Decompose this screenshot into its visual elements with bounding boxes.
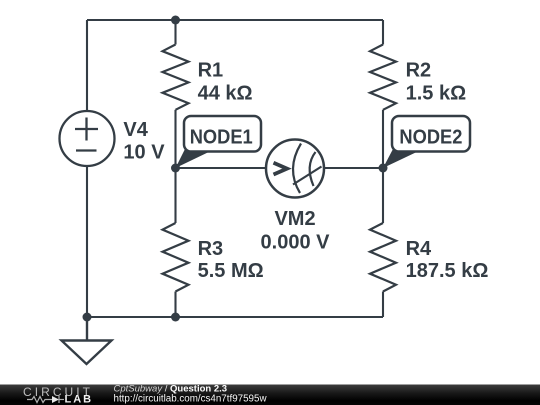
svg-text:R4: R4 (406, 238, 432, 260)
junction dot NODE1 (171, 164, 180, 173)
svg-text:http://circuitlab.com/cs4n7tf9: http://circuitlab.com/cs4n7tf97595w (114, 394, 268, 405)
svg-text:187.5 kΩ: 187.5 kΩ (406, 260, 489, 282)
wire R3 bottom lead (174, 292, 176, 318)
svg-text:LAB: LAB (65, 394, 94, 405)
footer logo squiggle and diode (27, 396, 64, 403)
junction dot NODE2 (379, 164, 388, 173)
wire R2 top lead (382, 20, 384, 45)
svg-text:R2: R2 (406, 60, 432, 82)
voltage source V4 (60, 111, 115, 166)
resistor R4 (370, 223, 396, 292)
wire VM2 right lead (324, 167, 383, 169)
node NODE1 label callout (176, 116, 262, 168)
junction dot top (R1/top wire) (171, 16, 180, 25)
wire R3 top lead (174, 168, 176, 223)
svg-text:NODE2: NODE2 (399, 126, 462, 148)
wire R2 bottom lead (382, 110, 384, 168)
wire R4 bottom lead (382, 292, 384, 318)
footer bar (0, 385, 540, 405)
junction dot bottom (R3/bottom wire) (171, 313, 180, 322)
resistor R2 (370, 45, 396, 110)
wire left vertical upper (86, 20, 88, 111)
wire bottom horizontal (87, 316, 383, 318)
svg-text:R3: R3 (198, 238, 224, 260)
ground (62, 317, 112, 364)
svg-text:NODE1: NODE1 (190, 126, 253, 148)
svg-text:V4: V4 (123, 119, 148, 141)
svg-text:10 V: 10 V (123, 142, 165, 164)
node NODE2 label callout (383, 116, 470, 168)
svg-text:1.5 kΩ: 1.5 kΩ (406, 82, 467, 104)
wire R4 top lead (382, 168, 384, 223)
wire R1 top lead (174, 20, 176, 45)
wire left vertical lower (86, 167, 88, 318)
svg-text:VM2: VM2 (274, 208, 315, 230)
resistor R1 (163, 45, 189, 110)
junction dot ground (83, 313, 92, 322)
svg-text:R1: R1 (198, 60, 224, 82)
wire top horizontal (87, 19, 383, 21)
wire VM2 left lead (176, 167, 267, 169)
resistor R3 (163, 223, 189, 292)
voltmeter VM2 (266, 140, 324, 198)
svg-text:0.000 V: 0.000 V (261, 231, 331, 253)
wire R1 bottom lead (174, 110, 176, 168)
svg-text:5.5 MΩ: 5.5 MΩ (198, 260, 264, 282)
svg-text:44 kΩ: 44 kΩ (198, 82, 253, 104)
